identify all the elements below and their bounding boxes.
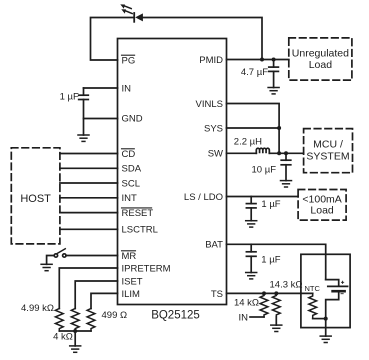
wire TS net xyxy=(227,292,313,294)
capacitor C4 1uF (LS/LDO) xyxy=(246,197,256,221)
wire IN pin to C 1uF xyxy=(84,87,118,89)
junction dot battery bottom xyxy=(324,317,328,321)
battery pack box xyxy=(301,254,350,327)
wire SYS net xyxy=(227,127,280,129)
IC name label BQ25125 xyxy=(151,310,200,322)
svg-text:MR: MR xyxy=(122,251,137,262)
pin label TS xyxy=(211,289,223,300)
svg-text:1 µF: 1 µF xyxy=(261,199,280,210)
svg-text:BAT: BAT xyxy=(205,240,223,251)
overline for RESET xyxy=(122,207,152,209)
svg-text:LSCTRL: LSCTRL xyxy=(122,225,158,236)
wire 14k to IN label xyxy=(250,316,264,318)
wire IPRETERM to resistor xyxy=(59,268,117,309)
resistor R3 499 (ILIM) xyxy=(87,309,95,331)
Unregulated Load box (dashed) xyxy=(289,38,352,80)
svg-text:Load: Load xyxy=(310,205,334,217)
ground below battery box xyxy=(320,336,331,342)
value label 4 kOhm xyxy=(53,331,73,342)
pin label LS / LDO xyxy=(184,192,223,203)
node label IN xyxy=(239,312,249,323)
svg-text:2.2 µH: 2.2 µH xyxy=(234,137,262,148)
capacitor C3 10uF xyxy=(281,153,291,180)
wire ISET to resistor xyxy=(75,281,117,309)
ground below C4 xyxy=(246,221,257,227)
ground below C3 xyxy=(281,181,292,187)
svg-text:4.99 kΩ: 4.99 kΩ xyxy=(21,303,54,314)
ground below C2 xyxy=(78,135,89,141)
junction dot TS / 14k xyxy=(262,291,266,295)
battery minus sign xyxy=(341,293,343,295)
svg-text:SYSTEM: SYSTEM xyxy=(306,151,349,163)
wire PG pin to top loop xyxy=(91,18,135,61)
wire SDA to HOST xyxy=(60,167,118,169)
svg-text:SCL: SCL xyxy=(122,178,140,189)
pin label VINLS xyxy=(196,99,223,110)
value label 14.3 kOhm xyxy=(270,279,303,290)
svg-text:SW: SW xyxy=(208,149,223,160)
capacitor C5 1uF (BAT) xyxy=(246,244,256,272)
LED D1 cathode bar xyxy=(133,13,135,22)
op-amp U1 : IC body BQ25125 xyxy=(118,39,227,305)
battery plus sign xyxy=(342,281,344,283)
junction dot SW node 1 xyxy=(277,151,281,155)
pin label PG (with overline) xyxy=(122,55,136,66)
value label 1 uF (LS) xyxy=(261,199,280,210)
LED D1 triangle xyxy=(135,13,143,21)
svg-text:SYS: SYS xyxy=(204,123,223,134)
wire VINLS-SYS drop to SW xyxy=(278,128,280,153)
pin label ISET xyxy=(122,276,143,287)
thermistor NTC xyxy=(309,293,317,317)
pin label SYS xyxy=(204,123,223,134)
wire BAT net xyxy=(227,244,326,279)
junction dot TS / 14.3k xyxy=(274,291,278,295)
svg-text:4 kΩ: 4 kΩ xyxy=(53,331,73,342)
pin label SW xyxy=(208,149,223,160)
wire RESET to HOST xyxy=(60,212,118,214)
overline for PG xyxy=(122,54,135,56)
LED D1 emission arrow 2 head xyxy=(121,9,126,13)
100mA Load label xyxy=(302,194,341,217)
svg-text:INT: INT xyxy=(122,193,138,204)
svg-text:IPRETERM: IPRETERM xyxy=(122,263,171,274)
wire switch to ground xyxy=(47,256,55,265)
pin label MR (with overline) xyxy=(122,251,137,262)
overline for CD xyxy=(122,148,135,150)
svg-text:TS: TS xyxy=(211,289,223,300)
switch S1 circle right xyxy=(63,254,66,257)
HOST label xyxy=(20,193,51,205)
value label 2.2 uH xyxy=(234,137,262,148)
wire battery jog xyxy=(326,280,339,286)
junction dot SYS/VINLS xyxy=(277,126,281,130)
svg-text:IN: IN xyxy=(239,312,249,323)
svg-text:4.7 µF: 4.7 µF xyxy=(241,67,268,78)
wire CD to HOST xyxy=(60,153,118,155)
wire node to ground xyxy=(74,331,76,346)
svg-text:GND: GND xyxy=(122,113,143,124)
LED D1 emission arrow 2 xyxy=(126,11,132,14)
pin label RESET (with overline) xyxy=(122,208,154,219)
svg-text:BQ25125: BQ25125 xyxy=(151,310,200,322)
pin label INT xyxy=(122,193,138,204)
value label 1 uF (IN) xyxy=(60,92,79,103)
pin label LSCTRL xyxy=(122,225,158,236)
pin label SCL xyxy=(122,178,140,189)
wire 14.3k to ground xyxy=(275,317,277,325)
svg-text:HOST: HOST xyxy=(20,193,51,205)
ground below C5 xyxy=(246,273,257,279)
wire INT to HOST xyxy=(60,197,118,199)
svg-text:499 Ω: 499 Ω xyxy=(102,310,128,321)
resistor R1 4.99k (IPRETERM) xyxy=(55,309,63,331)
wire SCL to HOST xyxy=(60,182,118,184)
overline for MR xyxy=(122,250,136,252)
svg-text:14 kΩ: 14 kΩ xyxy=(234,297,259,308)
svg-text:PMID: PMID xyxy=(199,55,223,66)
svg-text:MCU /: MCU / xyxy=(313,139,343,151)
pin label PMID xyxy=(199,55,223,66)
wire VINLS net xyxy=(227,104,280,129)
svg-text:VINLS: VINLS xyxy=(196,99,223,110)
value label 4.99 kOhm xyxy=(21,303,54,314)
switch S1 lever xyxy=(57,249,65,254)
LED D1 emission arrow 1 head xyxy=(120,4,125,8)
ground below C1 xyxy=(268,88,279,94)
svg-text:LS / LDO: LS / LDO xyxy=(184,192,223,203)
value label 10 uF xyxy=(252,164,277,175)
svg-text:SDA: SDA xyxy=(122,164,142,175)
pin label GND xyxy=(122,113,143,124)
resistor R2 4k (ISET) xyxy=(71,309,79,331)
pin label ILIM xyxy=(122,289,141,300)
resistor R5 14.3k xyxy=(272,293,280,317)
capacitor C1 4.7uF xyxy=(269,60,279,88)
svg-text:IN: IN xyxy=(122,83,132,94)
wire LS/LDO net xyxy=(227,196,299,198)
wire LED anode to right drop xyxy=(143,18,262,60)
ground below resistor node xyxy=(70,346,81,352)
svg-text:RESET: RESET xyxy=(122,208,154,219)
pin label BAT xyxy=(205,240,223,251)
wire LSCTRL to HOST xyxy=(60,228,118,230)
switch S1 circle left xyxy=(54,254,57,257)
NTC label xyxy=(305,284,321,293)
junction dot PMID / C 4.7uF xyxy=(272,58,276,62)
battery B1 plus plate xyxy=(328,285,348,287)
pin label SDA xyxy=(122,164,142,175)
value label 499 Ohm xyxy=(102,310,128,321)
wire NTC bottom to battery node xyxy=(313,318,326,320)
ground below 14.3k xyxy=(271,325,282,331)
pin label IN xyxy=(122,83,132,94)
svg-text:1 µF: 1 µF xyxy=(261,255,280,266)
wire SW pin to inductor xyxy=(227,152,257,154)
resistor R4 14k xyxy=(260,293,268,317)
svg-text:14.3 kΩ: 14.3 kΩ xyxy=(270,279,303,290)
wire MR pin to switch xyxy=(66,255,118,257)
battery B1 minus plate xyxy=(333,290,345,293)
svg-text:ILIM: ILIM xyxy=(122,289,141,300)
value label 14 kOhm xyxy=(234,297,259,308)
wire joining resistor bottoms xyxy=(59,330,91,332)
100mA Load box (dashed) xyxy=(298,190,346,221)
svg-text:NTC: NTC xyxy=(305,284,321,293)
pin label CD (with overline) xyxy=(122,149,136,160)
junction dot resistor bottoms xyxy=(73,329,77,333)
wire battery node to ground xyxy=(325,319,327,337)
value label 1 uF (BAT) xyxy=(261,255,280,266)
inductor L1 2.2uH xyxy=(256,148,269,153)
svg-text:PG: PG xyxy=(122,55,136,66)
junction dot SW node 2 (C 10uF) xyxy=(284,151,288,155)
capacitor C2 1uF (IN) xyxy=(79,88,89,135)
wire battery bottom jog xyxy=(326,292,339,318)
svg-text:Unregulated: Unregulated xyxy=(292,48,349,60)
LED D1 emission arrow 1 xyxy=(125,6,131,9)
wire GND pin xyxy=(84,118,118,120)
junction dot PMID / LED drop xyxy=(260,58,264,62)
MCU / SYSTEM label xyxy=(306,139,349,163)
HOST box (dashed) xyxy=(11,148,60,244)
svg-text:CD: CD xyxy=(122,149,136,160)
ground below switch xyxy=(41,264,52,270)
wire inductor to MCU box xyxy=(269,152,303,154)
Unregulated Load label xyxy=(292,48,349,72)
svg-text:Load: Load xyxy=(309,59,333,71)
wire PMID net xyxy=(227,59,289,61)
pin label IPRETERM xyxy=(122,263,171,274)
svg-text:1 µF: 1 µF xyxy=(60,92,79,103)
value label 4.7 uF xyxy=(241,67,268,78)
svg-text:10 µF: 10 µF xyxy=(252,164,277,175)
wire ILIM to resistor xyxy=(91,293,118,308)
svg-text:ISET: ISET xyxy=(122,276,143,287)
MCU / SYSTEM box (dashed) xyxy=(304,129,353,173)
